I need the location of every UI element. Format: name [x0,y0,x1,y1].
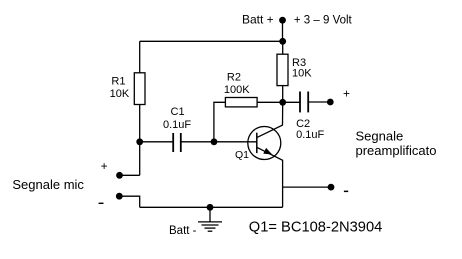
transistor Q1 [248,127,281,160]
wire top rail down to R1 [139,41,141,73]
node Batt+ terminal [279,17,286,24]
node top junction [279,38,286,45]
svg-text:Q1: Q1 [235,149,249,161]
wire collector [257,102,283,137]
svg-text:100K: 100K [224,84,250,96]
wire output - [283,186,331,188]
capacitor C1 [173,133,181,152]
svg-text:Segnale: Segnale [356,129,404,144]
wire node B to base [214,141,257,143]
label - output [344,191,348,193]
svg-text:Q1= BC108-2N3904: Q1= BC108-2N3904 [249,219,382,235]
wire collector node to C2 [283,101,300,103]
svg-text:0.1uF: 0.1uF [163,119,191,131]
svg-text:+: + [101,159,108,173]
node base junction A [136,138,143,145]
resistor R1 [134,73,145,105]
svg-text:R2: R2 [227,71,241,83]
svg-text:preamplificato: preamplificato [356,143,437,158]
svg-text:Segnale mic: Segnale mic [12,177,84,192]
wire + input [120,174,140,176]
node output - terminal [328,184,335,191]
wire C1 to node B [181,141,214,143]
capacitor C2 [300,92,308,113]
node base junction B [211,138,218,145]
svg-text:10K: 10K [110,88,130,100]
wire R2 left lead [214,102,226,142]
resistor R2 [225,98,257,107]
wire Batt+ terminal to top junction [282,20,284,41]
wire emitter [257,147,283,207]
svg-text:Batt -: Batt - [169,225,197,237]
svg-text:C1: C1 [171,106,185,118]
svg-text:R1: R1 [111,76,125,88]
wire C2 to output + terminal [308,101,330,103]
svg-text:0.1uF: 0.1uF [296,129,324,141]
wire bottom rail [140,206,283,208]
node ground junction [207,204,214,211]
node input - terminal [116,193,123,200]
node input + terminal [116,172,123,179]
wire base from node A to C1 [140,141,174,143]
wire R3 bottom to collector node [282,86,284,103]
wire R2 right lead [257,101,283,103]
node output + terminal [327,99,334,106]
wire - input [119,196,139,207]
wire top rail [140,40,283,42]
resistor R3 [277,54,288,85]
svg-text:C2: C2 [296,118,310,130]
svg-text:+ 3 – 9 Volt: + 3 – 9 Volt [294,15,353,27]
label - input [99,203,104,204]
wire R1 bottom to + input corner [139,105,141,176]
ground [198,207,222,231]
wire top junction to R3 [282,41,284,54]
svg-text:+: + [343,87,350,101]
svg-text:Batt +: Batt + [242,13,274,27]
svg-text:10K: 10K [292,68,312,80]
node collector junction [279,99,286,106]
